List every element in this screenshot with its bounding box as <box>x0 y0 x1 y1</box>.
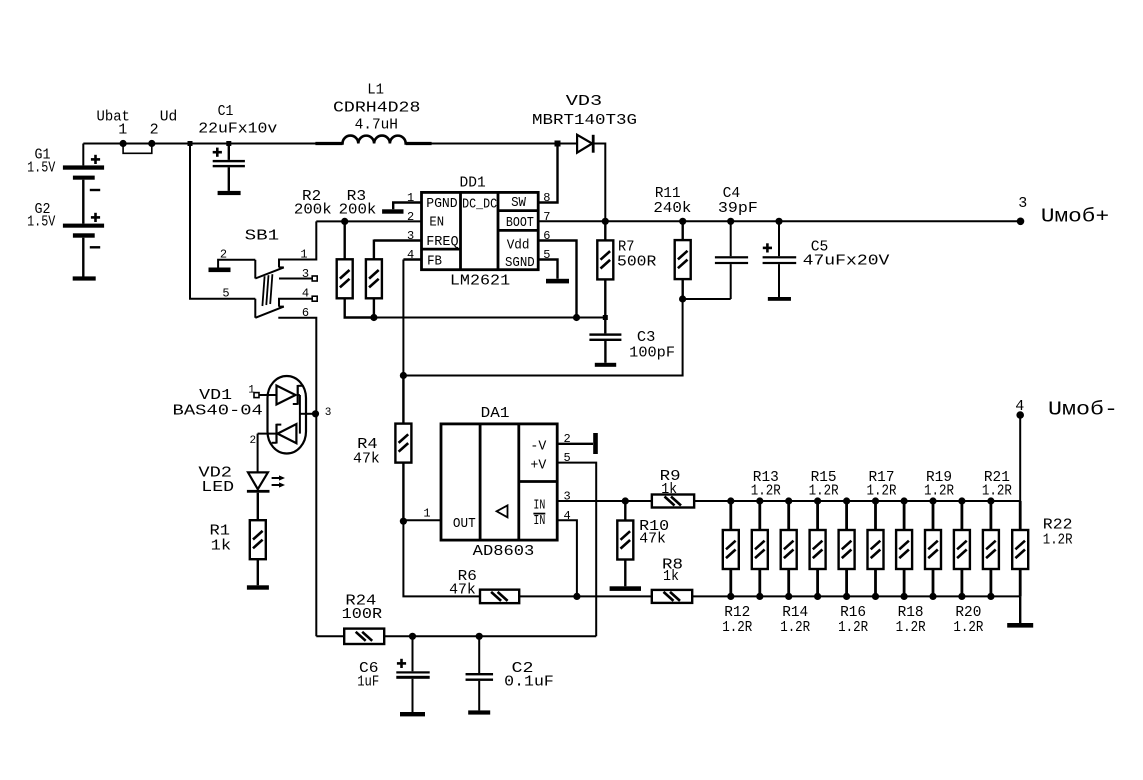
svg-text:PGND: PGND <box>426 197 458 212</box>
node 4 output terminal <box>1016 411 1024 419</box>
DA1 pin 3 IN stub <box>557 500 625 502</box>
DD1 pin 6 Vdd stub down to rail <box>538 241 576 318</box>
wire: feedback rail R3 to R7 bottom <box>374 317 605 319</box>
C6 plus sign <box>397 659 406 668</box>
svg-text:2: 2 <box>150 122 159 139</box>
svg-text:5: 5 <box>543 248 550 262</box>
svg-text:2: 2 <box>249 435 256 447</box>
DA1 internal divider right <box>517 424 520 540</box>
ground (R10) <box>610 586 641 591</box>
resistor R24 100R <box>344 629 384 644</box>
svg-text:1.2R: 1.2R <box>809 483 839 500</box>
svg-text:6: 6 <box>543 229 550 243</box>
svg-text:Ud: Ud <box>160 108 178 125</box>
svg-text:1.2R: 1.2R <box>751 483 781 500</box>
node: IN / R10 junction <box>622 497 629 504</box>
node: SW / VD3 anode junction <box>555 141 561 147</box>
DD1 internal divider right <box>497 192 500 269</box>
svg-text:1k: 1k <box>663 568 679 585</box>
wire: R24 to C6/C2/+V rail <box>384 635 596 637</box>
svg-text:2: 2 <box>407 210 414 224</box>
DA1 right cell divider <box>519 480 557 483</box>
wire: FB net from DD1 pin 4 down <box>402 260 404 376</box>
svg-text:2: 2 <box>563 432 570 446</box>
svg-text:VD1: VD1 <box>199 387 232 404</box>
DD1 pin 8 SW stub up to input rail <box>538 144 557 203</box>
resistor R9 1k <box>625 500 652 502</box>
wire: SB1 pin6 rail into R24 <box>316 635 344 637</box>
resistor R13 1.2R <box>756 497 763 504</box>
node 3 output terminal <box>1017 218 1025 226</box>
svg-text:IN: IN <box>533 498 545 513</box>
resistor R21 1.2R <box>987 497 994 504</box>
node 1 (Ubat) <box>120 140 127 147</box>
svg-text:Uмоб+: Uмоб+ <box>1041 206 1109 228</box>
DA1 pin 2 -V stub and ground bar <box>557 443 593 445</box>
svg-text:FREQ: FREQ <box>426 235 458 250</box>
wire: output rail BOOT to node 3 <box>605 220 1020 222</box>
DA1 internal divider left <box>479 424 482 540</box>
resistor R8 1k <box>652 590 692 603</box>
svg-text:4: 4 <box>302 287 309 301</box>
ground (SB1 pin 2) <box>209 268 231 273</box>
svg-text:1.2R: 1.2R <box>838 619 868 636</box>
resistor R1 1k <box>250 520 266 559</box>
DD1 right cell divider SW/BOOT <box>498 209 538 212</box>
VD1 pin 2 wire <box>258 433 277 435</box>
DD1 pin 5 SGND stub and ground <box>538 260 557 279</box>
svg-text:200k: 200k <box>339 202 377 219</box>
VD1 pin 1 wire and terminal <box>259 394 277 396</box>
svg-text:1.2R: 1.2R <box>722 619 752 636</box>
C5 plus sign <box>763 243 772 252</box>
SB1 pole 1 common vertical <box>254 260 256 279</box>
resistor R11 240k <box>682 221 684 240</box>
ground (C5) <box>768 297 791 301</box>
svg-text:BOOT: BOOT <box>506 216 534 231</box>
ground (C1) <box>218 191 241 195</box>
svg-text:8: 8 <box>543 191 550 205</box>
SB1 pin 6 wire going down to R24 <box>278 318 316 637</box>
wire: OUT net down to R6 <box>403 521 480 596</box>
resistor R22 1.2R <box>1019 501 1022 530</box>
capacitor C2 0.1uF <box>478 636 480 673</box>
svg-text:1.2R: 1.2R <box>982 483 1012 500</box>
svg-text:4.7uH: 4.7uH <box>355 117 398 134</box>
VD1 internal cathode wire <box>298 394 300 396</box>
svg-text:DA1: DA1 <box>481 405 510 422</box>
wire: left rail down to SB1 pin 5 <box>190 144 255 299</box>
SB1 pin 4 wire <box>279 299 313 307</box>
battery G1 1.5V <box>82 144 84 166</box>
battery G2 1.5V <box>63 224 104 228</box>
DD1 pin 7 BOOT stub <box>538 220 605 222</box>
wire: OUT stub to DA1 <box>403 519 441 521</box>
VD2 light arrows <box>272 475 285 487</box>
svg-text:DC_DC: DC_DC <box>462 198 497 213</box>
svg-text:6: 6 <box>302 306 309 320</box>
wire: VD1 pin 2 down to VD2 <box>257 434 259 473</box>
node: R11 top junction <box>679 218 686 225</box>
node: C4 top junction <box>727 218 734 225</box>
resistor R4 47k <box>402 376 404 424</box>
svg-text:SB1: SB1 <box>245 228 280 245</box>
node: IN-bar junction on R6-R8 wire <box>573 593 580 600</box>
svg-text:Vdd: Vdd <box>507 238 530 253</box>
svg-text:SGND: SGND <box>505 256 535 271</box>
svg-text:Ubat: Ubat <box>97 108 130 125</box>
svg-text:0.1uF: 0.1uF <box>504 673 554 690</box>
ground (C3) <box>595 363 616 367</box>
inductor L1 CDRH4D28 4.7uH <box>329 136 420 144</box>
wire: R1 to ground <box>257 559 259 586</box>
wire: G1 to G2 <box>82 180 84 224</box>
node: R2 top on EN net <box>341 218 348 225</box>
wire: battery positive rail to L1 <box>83 143 342 145</box>
wire: L1 to VD3 anode <box>406 143 577 145</box>
DD1 pin 1 PGND stub and ground <box>393 203 421 210</box>
wire: bank bottom rail to ground <box>1019 596 1021 623</box>
wire: R3 bottom to rail <box>373 298 375 317</box>
svg-text:100pF: 100pF <box>629 344 675 361</box>
node: C2 top junction <box>476 633 483 640</box>
SB1 pin 4 terminal square <box>312 296 317 301</box>
node: C6 top junction <box>409 633 416 640</box>
SB1 pole 2 blade <box>255 307 283 318</box>
diode VD1 BAS40-04 package outline <box>268 376 307 454</box>
SB1 pin 3 terminal square <box>312 276 317 281</box>
svg-text:1: 1 <box>407 191 414 205</box>
svg-text:CDRH4D28: CDRH4D28 <box>333 100 420 117</box>
node: rail end at R7/C3 <box>603 315 608 320</box>
SB1 coupling bars <box>262 276 264 306</box>
svg-text:FB: FB <box>427 255 442 270</box>
resistor R12 1.2R <box>727 497 734 504</box>
capacitor C5 47uFx20V <box>778 221 780 256</box>
svg-text:1: 1 <box>300 248 307 262</box>
SB1 pin 2 wire and terminal <box>218 260 255 268</box>
svg-text:1: 1 <box>248 385 255 397</box>
DA1 pin 4 IN-bar stub <box>557 520 577 596</box>
svg-text:1: 1 <box>423 507 430 521</box>
node: C5 top junction <box>775 218 782 225</box>
G2 plus sign <box>91 213 100 222</box>
svg-text:1k: 1k <box>661 481 677 498</box>
svg-text:2: 2 <box>220 248 227 262</box>
svg-text:LM2621: LM2621 <box>450 273 510 290</box>
svg-text:4: 4 <box>563 509 570 523</box>
SB1 pin 3 wire <box>279 278 313 280</box>
svg-text:1k: 1k <box>211 538 232 555</box>
SB1 pole 1 blade <box>255 267 283 278</box>
resistor R18 1.2R <box>901 497 908 504</box>
node: R3 bottom junction <box>370 314 377 321</box>
svg-text:EN: EN <box>429 216 444 231</box>
capacitor C1 22uFx10v <box>226 141 231 146</box>
VD1 bottom diode (cathode pin 2) <box>278 424 297 443</box>
svg-text:5: 5 <box>222 287 229 301</box>
wire: jumper loop between node 1 and node 2 <box>123 144 152 154</box>
node 2 (Ud) <box>148 140 155 147</box>
resistor R6 47k <box>480 590 519 604</box>
svg-text:1uF: 1uF <box>357 673 379 690</box>
node: R7 top junction <box>602 218 609 225</box>
DA1 triangle symbol <box>497 505 508 517</box>
resistor R14 1.2R <box>785 497 792 504</box>
DD1 pin 4 FB stub <box>403 258 421 260</box>
wire: R3 top to DD1 FREQ pin 3 <box>373 240 375 241</box>
DD1 left cell divider FREQ/FB <box>422 248 461 251</box>
op-amp DA1 box <box>441 424 557 540</box>
C1 plus sign <box>213 148 222 157</box>
svg-text:47k: 47k <box>353 451 380 468</box>
svg-text:22uFx10v: 22uFx10v <box>198 121 277 138</box>
svg-text:DD1: DD1 <box>460 175 486 192</box>
wire: C4 bottom link <box>683 298 731 300</box>
svg-text:47k: 47k <box>639 531 666 548</box>
VD1 top diode (anode pin 1) <box>277 386 296 405</box>
SB1 pin 1 wire <box>279 221 316 267</box>
svg-text:+V: +V <box>530 459 547 474</box>
G1 plus sign <box>91 155 100 164</box>
resistor R15 1.2R <box>814 497 821 504</box>
wire: G2 to ground <box>82 238 84 277</box>
ground (battery) <box>73 276 96 280</box>
svg-text:-V: -V <box>530 440 547 455</box>
node: junction of input rail and SB1 branch <box>188 141 193 146</box>
node: R4 bottom / DA1 OUT junction <box>400 518 407 525</box>
resistor R19 1.2R <box>929 497 936 504</box>
svg-text:240k: 240k <box>653 200 691 217</box>
svg-text:1.2R: 1.2R <box>924 483 954 500</box>
G2 minus sign <box>90 246 100 248</box>
capacitor C6 1uF <box>412 636 414 671</box>
svg-text:VD3: VD3 <box>566 93 602 110</box>
svg-text:BAS40-04: BAS40-04 <box>173 403 263 420</box>
ground (C6) <box>400 712 425 716</box>
VD1 pin 3 wire <box>300 413 316 415</box>
wire: bank bottom rail <box>692 595 1020 597</box>
resistor R10 47k <box>624 501 626 521</box>
SB1 pin 5 wire <box>254 299 256 318</box>
svg-text:SW: SW <box>511 196 527 211</box>
wire: R2 bottom to feedback rail <box>345 299 374 318</box>
svg-text:AD8603: AD8603 <box>473 543 535 560</box>
resistor R20 1.2R <box>958 497 965 504</box>
svg-text:MBRT140T3G: MBRT140T3G <box>532 112 637 129</box>
G1 minus sign <box>90 189 100 191</box>
resistor R16 1.2R <box>843 497 850 504</box>
svg-text:3: 3 <box>325 407 332 419</box>
svg-text:1.2R: 1.2R <box>780 619 810 636</box>
resistor R3 200k <box>366 259 382 298</box>
svg-text:5: 5 <box>563 451 570 465</box>
inductor L1 lead-in stubs <box>315 142 342 145</box>
svg-text:IN: IN <box>533 514 545 529</box>
svg-text:4: 4 <box>1015 398 1024 415</box>
svg-text:200k: 200k <box>294 202 332 219</box>
svg-text:3: 3 <box>563 490 570 504</box>
svg-text:100R: 100R <box>342 606 382 623</box>
ground (R22 / node 4 return) <box>1007 623 1033 628</box>
wire: VD3 cathode to output rail corner <box>595 144 606 222</box>
ground (R1) <box>247 585 269 589</box>
diode VD3 MBRT140T3G <box>577 135 592 153</box>
wire: bank top rail <box>694 500 1020 502</box>
svg-text:47uFx20V: 47uFx20V <box>803 253 890 270</box>
svg-text:OUT: OUT <box>453 517 476 532</box>
svg-text:1.2R: 1.2R <box>953 619 983 636</box>
svg-text:39pF: 39pF <box>718 200 758 217</box>
svg-text:7: 7 <box>543 210 550 224</box>
svg-text:Uмоб-: Uмоб- <box>1048 399 1118 421</box>
svg-text:C1: C1 <box>218 103 234 120</box>
DD1 pin 3 FREQ stub <box>374 239 422 241</box>
svg-text:3: 3 <box>1018 195 1027 212</box>
node: Vdd net junction on rail <box>573 314 580 321</box>
svg-text:1.5V: 1.5V <box>27 160 55 177</box>
svg-text:LED: LED <box>201 479 234 496</box>
wire: FB net across to R11 bottom <box>403 299 682 376</box>
svg-text:1.5V: 1.5V <box>27 214 55 231</box>
wire: R6 to R8 <box>519 595 652 597</box>
capacitor C4 39pF <box>730 221 732 256</box>
capacitor C3 100pF <box>589 333 621 335</box>
svg-text:C3: C3 <box>637 329 656 346</box>
wire: EN net from SB1 pin 1 to DD1 pin 2 <box>316 220 421 222</box>
node: FB / R4 junction <box>400 372 407 379</box>
node: R11/C4 bottom junction <box>679 295 686 302</box>
resistor R2 200k <box>344 221 346 259</box>
svg-text:L1: L1 <box>367 81 384 98</box>
DD1 internal divider left <box>459 192 462 269</box>
resistor R17 1.2R <box>872 497 879 504</box>
wire: node 4 to bank top rail <box>1019 415 1021 501</box>
DD1 right cell divider BOOT/Vdd <box>498 229 538 232</box>
svg-text:1.2R: 1.2R <box>896 619 926 636</box>
wire: VD2 to R1 <box>257 493 259 521</box>
resistor R7 500R <box>604 221 606 240</box>
svg-text:47k: 47k <box>449 582 476 599</box>
svg-text:1.2R: 1.2R <box>867 483 897 500</box>
svg-text:500R: 500R <box>617 254 656 271</box>
LED VD2 <box>248 472 268 489</box>
op-amp controller DD1 box <box>422 192 539 269</box>
ground (C2) <box>468 710 490 714</box>
svg-text:1.2R: 1.2R <box>1043 531 1073 548</box>
DA1 pin 5 +V stub <box>557 463 596 637</box>
node: VD1 pin 3 to SB1-6 vertical <box>312 410 319 417</box>
svg-text:3: 3 <box>302 267 309 281</box>
